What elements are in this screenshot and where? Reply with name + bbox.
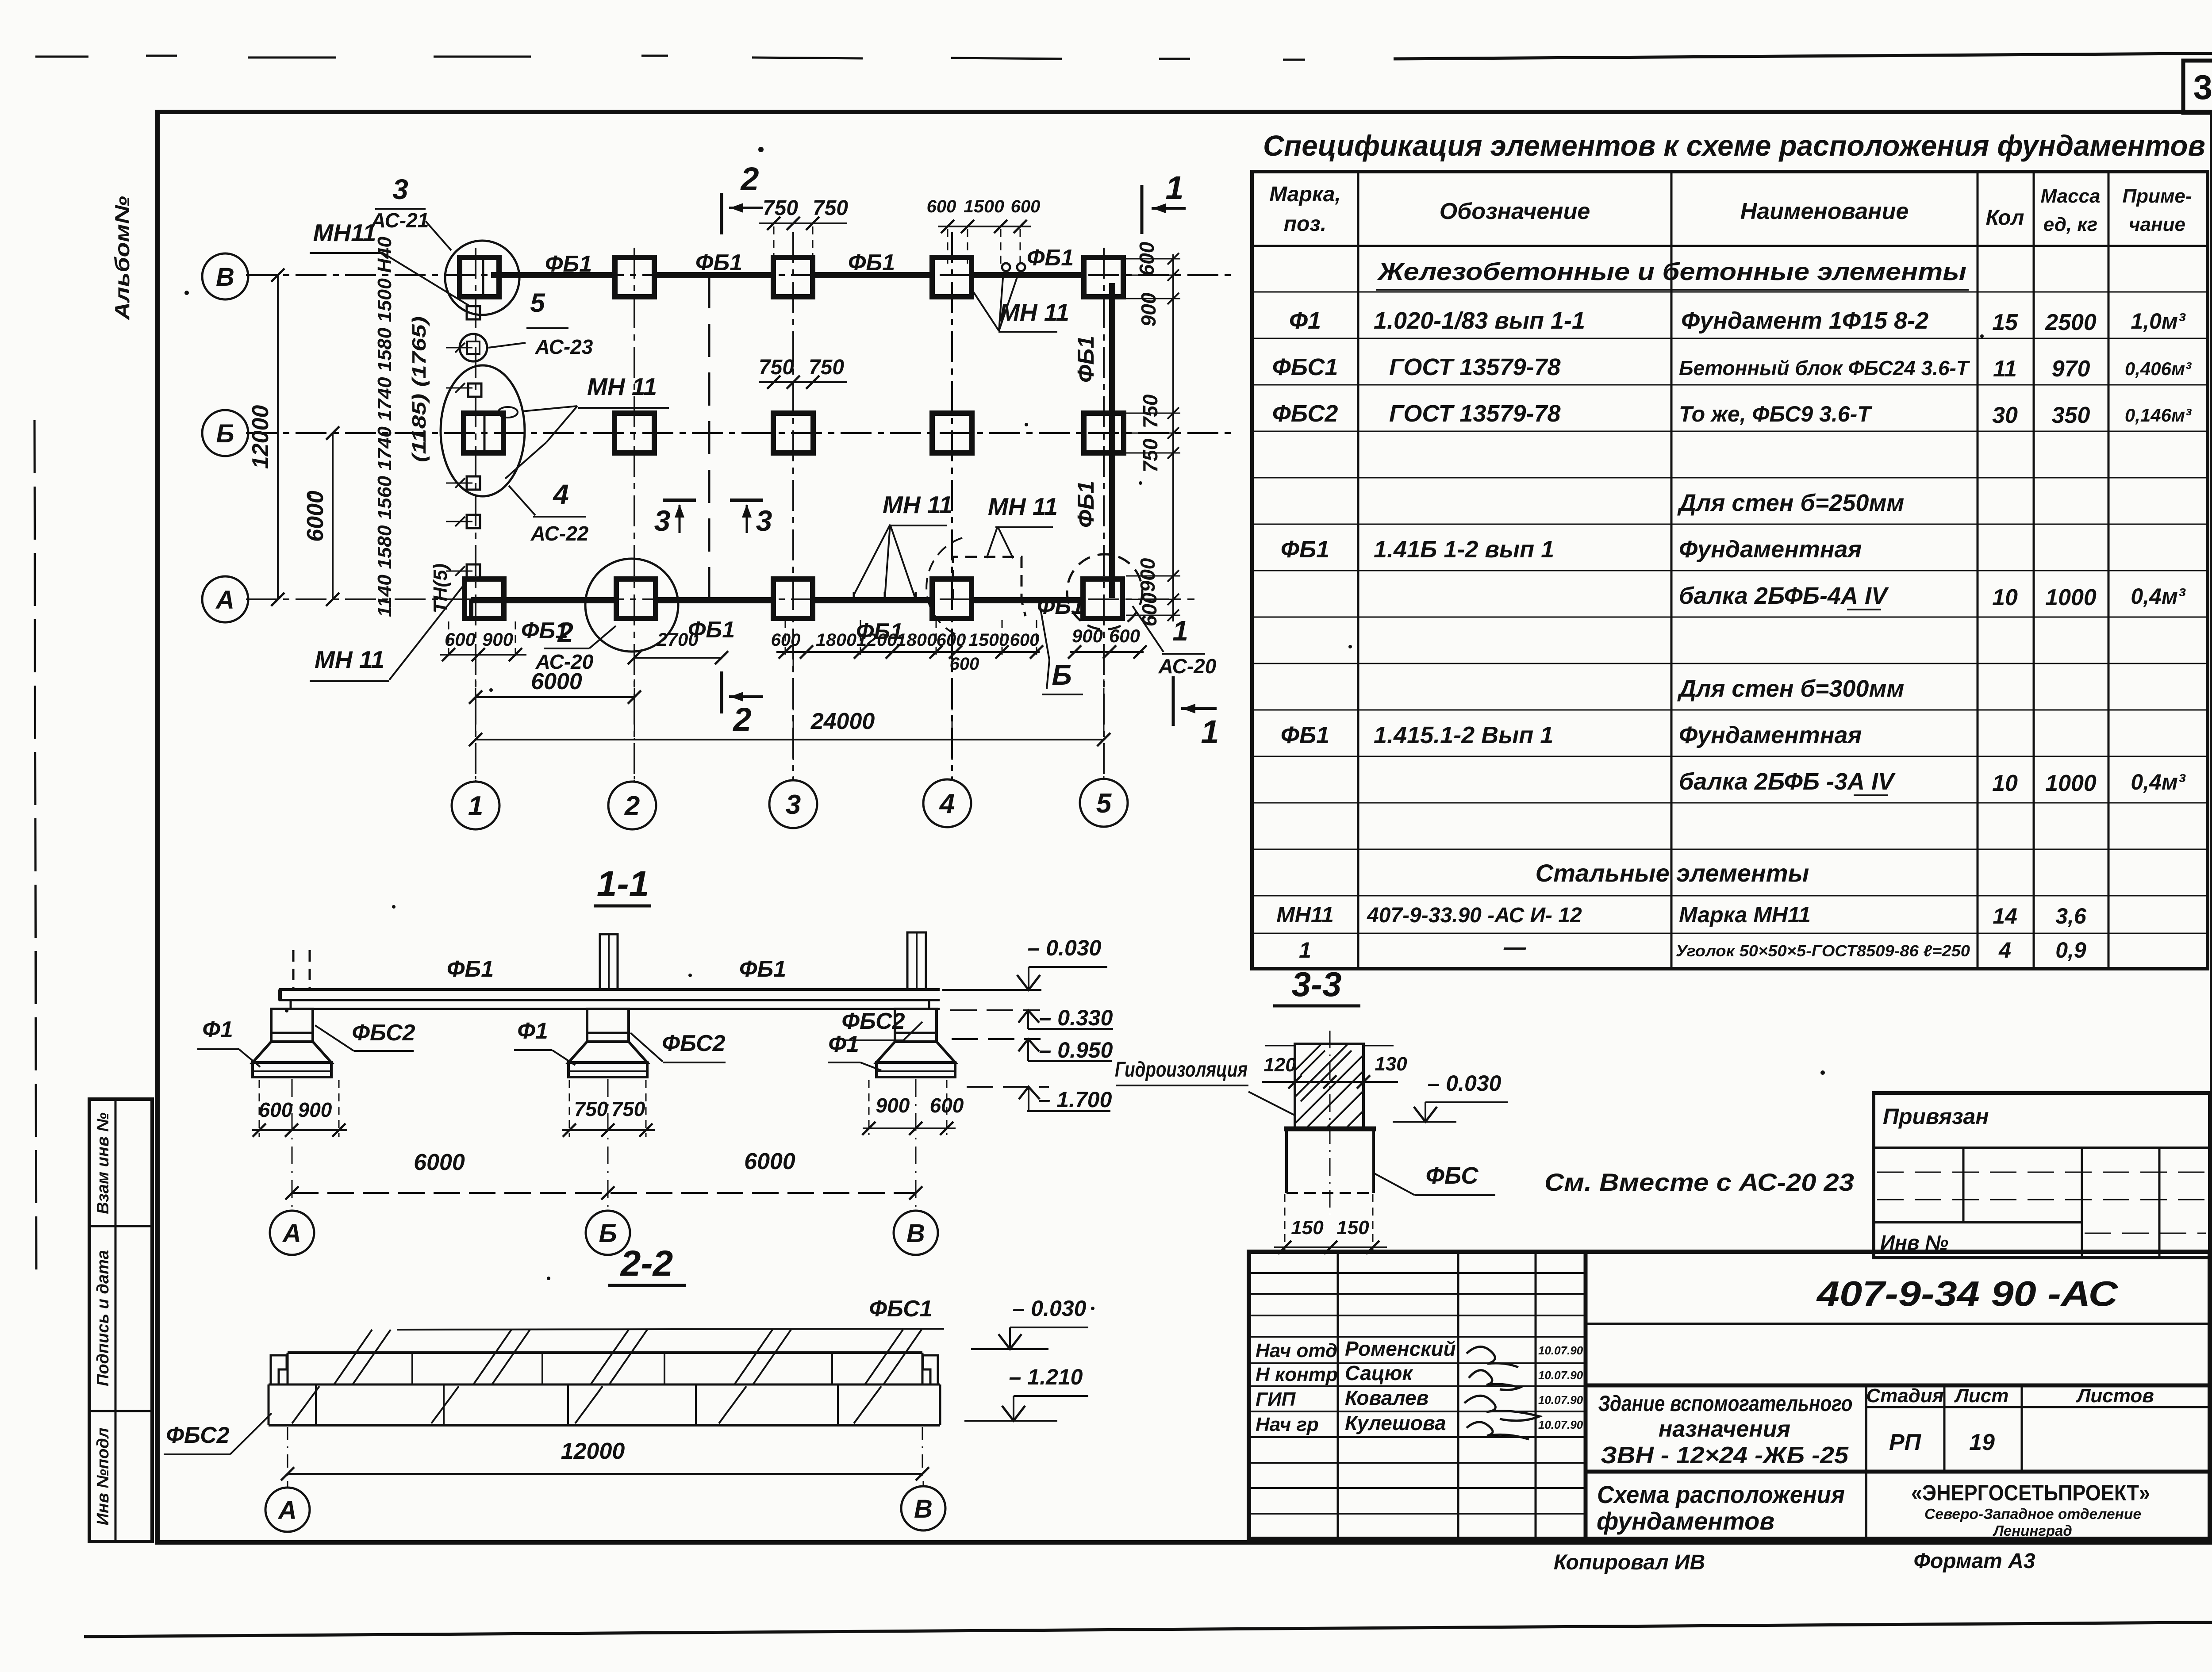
- svg-text:5: 5: [530, 288, 545, 318]
- plan: FB1 labels rotated axis5: [1073, 336, 1099, 528]
- svg-text:2500: 2500: [2045, 310, 2097, 335]
- svg-text:4: 4: [939, 789, 955, 819]
- section 1-1 elevation -0.950: [952, 1038, 1113, 1062]
- svg-text:600: 600: [1135, 242, 1158, 276]
- plan: bottom dim 2700: [628, 629, 728, 664]
- svg-text:Инв №подл: Инв №подл: [94, 1428, 112, 1526]
- svg-text:0,4м³: 0,4м³: [2131, 584, 2185, 609]
- svg-text:14: 14: [1993, 904, 2017, 928]
- svg-text:24000: 24000: [810, 709, 875, 734]
- svg-text:600: 600: [259, 1098, 293, 1121]
- plan: top dim 600 1500 600 axis4: [927, 197, 1041, 265]
- scan artifact left edge: [35, 420, 36, 1269]
- section 1-1 axis circles: [270, 1079, 938, 1255]
- svg-text:Приме-: Приме-: [2122, 185, 2192, 207]
- plan: foundation F1 row A axis 5: [1083, 579, 1122, 618]
- svg-text:6000: 6000: [303, 491, 328, 542]
- svg-text:АС-22: АС-22: [530, 522, 589, 545]
- plan: axis1 tick marks: [446, 343, 472, 576]
- svg-text:ФБС2: ФБС2: [841, 1009, 905, 1034]
- plan: foundation F1 row V axis 4: [932, 257, 972, 297]
- plan: detail circle AC-21: [445, 241, 519, 315]
- svg-text:—: —: [1503, 935, 1526, 959]
- title block vertical lines: [1338, 1252, 1586, 1539]
- svg-text:900: 900: [1137, 292, 1160, 326]
- spec table grid: [1252, 172, 2208, 969]
- svg-text:Северо-Западное отделение: Северо-Западное отделение: [1924, 1506, 2141, 1522]
- svg-text:В: В: [914, 1495, 933, 1523]
- svg-text:ФБ1: ФБ1: [1027, 245, 1074, 271]
- title block dates: [1538, 1344, 1583, 1431]
- section 1-1 label FBS2 axis V: [841, 1009, 922, 1040]
- section 2-2 hatching: [292, 1330, 922, 1423]
- plan: flag B label: [1040, 604, 1083, 694]
- svg-text:10.07.90: 10.07.90: [1538, 1393, 1583, 1407]
- spec table subheader row: [1376, 257, 1969, 290]
- svg-text:Железобетонные и бетонные эле: Железобетонные и бетонные элементы: [1377, 257, 1966, 285]
- section 2-2 lower course: [269, 1384, 940, 1425]
- svg-text:970: 970: [2052, 356, 2090, 382]
- spec table row FBS1: [1272, 354, 2192, 382]
- svg-text:1500: 1500: [968, 630, 1009, 650]
- section 1-1 footing F1 axis A: [253, 1009, 331, 1077]
- plan: column circle 3: [769, 780, 817, 828]
- section 1-1 label F1 axis A: [197, 1017, 260, 1067]
- plan: foundation F1 row B axis 4: [932, 413, 972, 453]
- svg-text:Лист: Лист: [1954, 1385, 2009, 1407]
- svg-text:В: В: [216, 263, 234, 291]
- section 2-2 top line: [397, 1329, 944, 1330]
- plan: foundation F1 row A axis 2: [616, 579, 656, 618]
- spec table row ugolok: [1299, 935, 2086, 963]
- svg-text:4: 4: [552, 479, 569, 510]
- svg-text:Копировал ИВ: Копировал ИВ: [1554, 1551, 1705, 1574]
- plan: vertical axis 2: [634, 248, 635, 782]
- svg-text:Стадия: Стадия: [1866, 1385, 1943, 1407]
- plan: foundation F1 row B axis 1: [464, 413, 503, 453]
- svg-text:ГОСТ 13579-78: ГОСТ 13579-78: [1389, 354, 1561, 380]
- svg-text:6000: 6000: [744, 1149, 795, 1174]
- section 1-1 label F1 axis B: [514, 1018, 575, 1065]
- svg-text:120: 120: [1263, 1054, 1296, 1076]
- section 1-1 label FBS2 axis B: [630, 1031, 726, 1062]
- svg-text:600: 600: [927, 197, 956, 216]
- plan: label 4 AC-22: [509, 479, 589, 545]
- plan: column circle 1: [452, 782, 499, 829]
- svg-text:600: 600: [1109, 625, 1140, 646]
- plan: section mark 2 top: [722, 161, 763, 234]
- svg-text:Нач гр: Нач гр: [1256, 1414, 1319, 1435]
- plan: axis line B (row G): [246, 432, 1234, 434]
- plan: bottom dim 900 600 axis5: [1068, 625, 1147, 659]
- section 1-1 footing F1 axis V: [876, 1009, 955, 1077]
- svg-text:В: В: [906, 1219, 925, 1248]
- title block right zone lines: [1586, 1324, 2210, 1539]
- svg-text:Марка,: Марка,: [1269, 183, 1341, 206]
- svg-text:1,0м³: 1,0м³: [2131, 309, 2185, 334]
- svg-text:900: 900: [482, 629, 513, 650]
- svg-text:ФБ1: ФБ1: [447, 956, 494, 982]
- svg-text:750: 750: [1139, 394, 1162, 428]
- plan: bottom dim 6000: [469, 669, 641, 704]
- svg-text:750: 750: [1139, 438, 1162, 472]
- spec table header texts: [1269, 183, 2192, 236]
- section 1-1 label F1 axis V: [828, 1032, 881, 1070]
- svg-text:ФБ1: ФБ1: [739, 956, 786, 982]
- svg-text:6000: 6000: [414, 1150, 465, 1175]
- svg-text:Обозначение: Обозначение: [1440, 199, 1590, 224]
- section 1-1 dim 600 900 axis A: [252, 1080, 347, 1137]
- svg-text:ФБС2: ФБС2: [352, 1020, 415, 1046]
- svg-text:поз.: поз.: [1284, 212, 1326, 236]
- svg-text:– 0.950: – 0.950: [1039, 1038, 1113, 1062]
- svg-text:Для стен б=300мм: Для стен б=300мм: [1677, 675, 1904, 702]
- title block names: [1345, 1337, 1456, 1434]
- svg-text:600: 600: [1010, 630, 1040, 650]
- plan: label 1 AC-20: [1133, 606, 1217, 678]
- section 1-1 footing F1 axis B: [568, 1009, 647, 1077]
- drawing frame border: [157, 112, 2212, 1542]
- svg-text:ФБ1: ФБ1: [1281, 722, 1329, 748]
- svg-text:10.07.90: 10.07.90: [1538, 1418, 1583, 1431]
- plan: dashed rect MN11 detail axis4: [926, 538, 1025, 637]
- section 1-1 column V stub: [907, 932, 926, 989]
- plan: vertical axis 1: [475, 248, 476, 782]
- svg-text:900: 900: [1072, 625, 1103, 646]
- svg-text:1: 1: [1299, 938, 1311, 963]
- svg-text:МН11: МН11: [1276, 902, 1334, 927]
- plan: beam FB1 row V segments: [491, 272, 1084, 278]
- svg-text:Ф1: Ф1: [517, 1018, 548, 1044]
- svg-text:12000: 12000: [561, 1438, 625, 1464]
- svg-text:ФБ1: ФБ1: [848, 250, 895, 276]
- svg-text:2-2: 2-2: [620, 1243, 673, 1284]
- section 1-1 dim 750 750 axis B: [562, 1080, 655, 1137]
- svg-text:ФБ1: ФБ1: [1073, 336, 1099, 383]
- svg-text:12000: 12000: [248, 405, 273, 469]
- plan: section 3-3 cut line: [708, 275, 710, 600]
- svg-text:Уголок 50×50×5-ГОСТ8509-86 ℓ=2: Уголок 50×50×5-ГОСТ8509-86 ℓ=250: [1676, 942, 1970, 960]
- plan: foundation F1 row V axis 1: [460, 257, 499, 297]
- section 2-2 FBS2 label: [164, 1413, 272, 1454]
- section 1-1 column A dashed: [293, 950, 310, 989]
- svg-text:2: 2: [740, 161, 759, 197]
- svg-text:2: 2: [624, 791, 640, 821]
- svg-text:ФБС2: ФБС2: [166, 1423, 229, 1448]
- svg-text:750: 750: [574, 1097, 608, 1120]
- section 3-3 FBS block: [1284, 1129, 1376, 1193]
- left stamp column: [89, 1099, 152, 1542]
- plan: section mark 3 left: [654, 500, 696, 537]
- plan: foundation F1 row B axis 2: [614, 413, 654, 453]
- svg-text:ЗВН - 12×24 -ЖБ -25: ЗВН - 12×24 -ЖБ -25: [1601, 1442, 1849, 1469]
- svg-text:407-9-33.90 -АС И- 12: 407-9-33.90 -АС И- 12: [1367, 904, 1582, 927]
- svg-text:См. Вместе с АС-20 23: См. Вместе с АС-20 23: [1544, 1168, 1854, 1196]
- scan artifact top dashed line: [35, 53, 2212, 60]
- section 1-1 dim 6000 6000: [285, 1149, 922, 1200]
- svg-text:Нач отд: Нач отд: [1256, 1340, 1337, 1361]
- title block stadiya list listov: [1866, 1385, 2154, 1455]
- section 1-1 dim 900 600 axis V: [862, 1080, 964, 1135]
- svg-text:Роменский: Роменский: [1345, 1337, 1456, 1360]
- svg-text:Марка МН11: Марка МН11: [1679, 902, 1811, 927]
- svg-text:Стальные элементы: Стальные элементы: [1536, 859, 1809, 887]
- plan: left dim 6000: [303, 426, 339, 606]
- svg-text:10.07.90: 10.07.90: [1538, 1344, 1583, 1357]
- svg-text:А: А: [277, 1496, 297, 1525]
- svg-text:МН 11: МН 11: [999, 299, 1069, 326]
- sheet number box 32: [2183, 61, 2212, 113]
- svg-text:Б: Б: [599, 1219, 617, 1248]
- svg-text:– 0.030: – 0.030: [1428, 1071, 1502, 1096]
- section 2-2 upper course: [269, 1353, 940, 1384]
- plan: label MN11 bottom left: [310, 583, 465, 681]
- svg-text:Масса: Масса: [2040, 185, 2100, 207]
- svg-text:750: 750: [763, 196, 798, 220]
- svg-text:Привязан: Привязан: [1883, 1104, 1989, 1129]
- svg-text:ФБ1: ФБ1: [1037, 594, 1084, 619]
- svg-text:1140 1580 1560 1740 1740 1580: 1140 1580 1560 1740 1740 1580 1500 Н40: [374, 236, 396, 617]
- plan: vertical axis 3: [792, 232, 794, 781]
- svg-text:Фундаментная: Фундаментная: [1679, 722, 1862, 748]
- svg-text:Спецификация элементов к схеме: Спецификация элементов к схеме расположе…: [1263, 129, 2205, 162]
- svg-text:Ленинград: Ленинград: [1993, 1522, 2072, 1539]
- plan: bottom dim 600 900 axis1: [440, 621, 526, 661]
- spec table row FB1 first: [1281, 536, 1862, 563]
- plan: foundation F1 row A axis 4: [932, 579, 972, 618]
- svg-text:ед, кг: ед, кг: [2043, 214, 2097, 235]
- svg-text:15: 15: [1992, 310, 2018, 335]
- plan: column circle 2: [608, 782, 656, 829]
- svg-text:1: 1: [1165, 169, 1183, 206]
- svg-text:Взам инв №: Взам инв №: [94, 1112, 112, 1214]
- svg-text:ФБ1: ФБ1: [1281, 536, 1329, 563]
- plan: beam FB1 row A segments: [471, 600, 1083, 617]
- plan: foundation F1 row V axis 3: [773, 257, 813, 297]
- plan: label MN11 mid: [498, 373, 669, 479]
- svg-text:1800: 1800: [816, 630, 856, 650]
- plan: axis line A (row A): [246, 598, 1194, 600]
- svg-text:АС-23: АС-23: [535, 335, 593, 358]
- section 1-1 column B stub: [600, 934, 618, 989]
- plan: detail oval AC-22: [441, 365, 525, 496]
- svg-text:РП: РП: [1889, 1430, 1922, 1455]
- svg-text:900: 900: [298, 1098, 332, 1121]
- svg-text:«ЭНЕРГОСЕТЬПРОЕКТ»: «ЭНЕРГОСЕТЬПРОЕКТ»: [1911, 1480, 2150, 1505]
- plan: bottom dim chain axis3-4: [771, 620, 1043, 674]
- svg-text:балка 2БФБ -3А IV: балка 2БФБ -3А IV: [1679, 768, 1896, 795]
- svg-text:32: 32: [2193, 68, 2212, 107]
- plan: foundation F1 row A axis 1: [465, 579, 504, 618]
- svg-text:– 0.330: – 0.330: [1039, 1005, 1113, 1030]
- plan: section mark 1 top: [1142, 169, 1186, 234]
- svg-text:750: 750: [813, 196, 848, 220]
- svg-text:ГИП: ГИП: [1256, 1388, 1296, 1410]
- svg-text:750: 750: [611, 1097, 645, 1120]
- plan: column circle 4: [923, 779, 971, 827]
- plan: section mark 2 bottom: [722, 671, 763, 738]
- svg-text:Для стен б=250мм: Для стен б=250мм: [1677, 490, 1904, 516]
- plan: label 5 AC-23: [488, 288, 593, 358]
- svg-text:ФБ1: ФБ1: [1073, 481, 1099, 528]
- svg-text:1000: 1000: [2045, 585, 2097, 610]
- plan: top dim 750 750 axis3: [759, 196, 848, 264]
- svg-text:1200: 1200: [856, 630, 897, 650]
- svg-text:3: 3: [756, 504, 772, 537]
- svg-text:Ф1: Ф1: [1289, 307, 1321, 334]
- privyazan table: [1874, 1093, 2210, 1258]
- svg-text:600: 600: [1011, 197, 1041, 216]
- svg-text:балка 2БФБ-4А IV: балка 2БФБ-4А IV: [1679, 583, 1889, 609]
- section 3-3 title: [1273, 965, 1360, 1006]
- svg-text:600: 600: [950, 654, 979, 674]
- svg-text:900: 900: [1136, 558, 1159, 592]
- plan: grid circle B: [202, 410, 248, 456]
- svg-text:ФБС2: ФБС2: [662, 1031, 725, 1056]
- svg-text:ФБС: ФБС: [1426, 1162, 1479, 1189]
- svg-text:900: 900: [876, 1094, 910, 1117]
- svg-text:Подпись и дата: Подпись и дата: [94, 1250, 112, 1386]
- plan: bottom dim 24000: [469, 709, 1110, 746]
- plan: axis extensions to column circles: [476, 659, 1104, 779]
- section 3-3 wall centerline: [1329, 1031, 1331, 1214]
- svg-text:Н контр: Н контр: [1256, 1364, 1338, 1385]
- plan: vertical axis 4: [951, 232, 953, 779]
- svg-text:Б: Б: [216, 419, 234, 448]
- svg-text:600: 600: [1138, 592, 1161, 626]
- section 1-1 beam lines: [279, 989, 940, 1009]
- svg-text:ГОСТ 13579-78: ГОСТ 13579-78: [1389, 400, 1561, 427]
- plan: beam FB1 vertical axis5: [1109, 283, 1115, 598]
- svg-text:ФБС2: ФБС2: [1272, 400, 1338, 427]
- scan artifact bottom edge: [84, 1622, 2212, 1637]
- svg-text:1.020-1/83 вып 1-1: 1.020-1/83 вып 1-1: [1374, 307, 1585, 334]
- svg-text:МН 11: МН 11: [315, 646, 384, 673]
- spec table row FBS2: [1272, 400, 2192, 428]
- svg-text:фундаментов: фундаментов: [1597, 1507, 1774, 1535]
- section 2-2 left mounting hook: [271, 1355, 287, 1384]
- svg-text:3: 3: [654, 504, 671, 537]
- svg-text:1500: 1500: [964, 197, 1004, 216]
- title block org name: [1911, 1480, 2150, 1539]
- svg-text:Фундамент 1Ф15 8-2: Фундамент 1Ф15 8-2: [1681, 307, 1928, 334]
- plan: label 3 AC-21: [371, 173, 451, 250]
- svg-text:11: 11: [1993, 356, 2017, 382]
- svg-text:1.415.1-2 Вып 1: 1.415.1-2 Вып 1: [1374, 722, 1553, 748]
- plan: grid circle A: [202, 576, 248, 622]
- svg-text:150: 150: [1291, 1217, 1324, 1239]
- plan: foundation F1 row A axis 3: [773, 579, 813, 618]
- svg-text:19: 19: [1969, 1430, 1995, 1455]
- section 3-3 dim 150 150: [1274, 1194, 1387, 1254]
- title block left zone rows: [1249, 1273, 1586, 1514]
- svg-text:1000: 1000: [2045, 771, 2097, 796]
- section 3-3 dim 120 130: [1262, 1046, 1407, 1089]
- svg-text:3,6: 3,6: [2055, 904, 2087, 928]
- svg-text:Бетонный блок ФБС24 3.6-Т: Бетонный блок ФБС24 3.6-Т: [1679, 357, 1970, 380]
- svg-text:407-9-34 90 -АС: 407-9-34 90 -АС: [1816, 1274, 2119, 1313]
- plan: label MN11 row V right: [971, 263, 1069, 332]
- section 3-3 wall hatched: [1295, 1044, 1363, 1128]
- svg-text:10: 10: [1992, 771, 2018, 796]
- svg-text:Здание вспомогательного: Здание вспомогательного: [1598, 1391, 1853, 1416]
- svg-text:3-3: 3-3: [1292, 965, 1342, 1004]
- svg-text:30: 30: [1992, 403, 2018, 428]
- section 2-2 right mounting hook: [923, 1355, 938, 1384]
- title block sheet name: [1597, 1480, 1845, 1535]
- plan: vertical axis 5: [1103, 248, 1105, 779]
- svg-text:Фундаментная: Фундаментная: [1679, 536, 1862, 563]
- plan: axis line V (row B): [246, 274, 1234, 276]
- plan: FB1 labels row A: [521, 594, 1084, 644]
- plan: MN11 small squares along axis1: [467, 306, 481, 578]
- svg-text:0,9: 0,9: [2055, 938, 2086, 963]
- section 1-1 elevation -0.330: [950, 1005, 1113, 1030]
- svg-text:Листов: Листов: [2076, 1385, 2154, 1407]
- plan: dashed detail circle 1 AC-20 axis5: [1067, 554, 1142, 629]
- svg-text:Формат А3: Формат А3: [1913, 1549, 2035, 1573]
- svg-text:4: 4: [1998, 938, 2011, 963]
- svg-text:МН 11: МН 11: [883, 491, 952, 518]
- svg-text:6000: 6000: [531, 669, 582, 694]
- svg-text:0,4м³: 0,4м³: [2131, 770, 2185, 794]
- svg-text:750: 750: [809, 356, 844, 379]
- svg-text:ФБ1: ФБ1: [695, 250, 742, 276]
- svg-text:Гидроизоляция: Гидроизоляция: [1115, 1058, 1248, 1081]
- title block roles: [1256, 1340, 1338, 1435]
- svg-text:– 1.210: – 1.210: [1009, 1365, 1083, 1389]
- plan: detail circle 2 AC-20: [585, 559, 678, 652]
- svg-text:чание: чание: [2129, 214, 2185, 235]
- section 2-2 axis circle V: [901, 1481, 945, 1530]
- plan: inner line in row B axis1 square: [484, 415, 486, 451]
- plan: label MN11 upper left: [310, 219, 470, 306]
- svg-text:10: 10: [1992, 585, 2018, 610]
- svg-text:10.07.90: 10.07.90: [1538, 1369, 1583, 1382]
- svg-text:2: 2: [557, 617, 573, 648]
- section 1-1 title: [594, 864, 651, 906]
- svg-text:1: 1: [468, 791, 483, 821]
- svg-text:А: А: [282, 1219, 301, 1248]
- svg-text:130: 130: [1375, 1053, 1407, 1075]
- svg-text:Ковалев: Ковалев: [1345, 1386, 1429, 1409]
- svg-text:Ф1: Ф1: [202, 1017, 233, 1043]
- svg-text:3: 3: [392, 173, 408, 205]
- plan: right dim chain: [1126, 242, 1180, 626]
- svg-text:Сацюк: Сацюк: [1345, 1361, 1413, 1384]
- plan: label MN11 row A center: [854, 491, 952, 600]
- svg-text:3: 3: [786, 790, 801, 820]
- plan: foundation F1 row B axis 5: [1084, 413, 1124, 453]
- svg-text:ФБС1: ФБС1: [869, 1296, 932, 1322]
- plan: FB1 labels row V: [545, 245, 1074, 277]
- noise specks: [184, 147, 1984, 1310]
- svg-text:АС-20: АС-20: [1158, 655, 1217, 678]
- svg-text:Кол: Кол: [1986, 206, 2024, 230]
- spec table row balka 4A: [1679, 583, 2186, 610]
- svg-text:150: 150: [1336, 1217, 1369, 1239]
- svg-text:(1185) (1765): (1185) (1765): [408, 316, 430, 462]
- svg-text:Ф1: Ф1: [828, 1032, 859, 1057]
- plan: mid dim 750 750 axis3 row B: [759, 356, 847, 389]
- svg-text:Схема расположения: Схема расположения: [1597, 1480, 1845, 1508]
- svg-text:1: 1: [1201, 713, 1219, 750]
- svg-text:1.41Б 1-2 вып 1: 1.41Б 1-2 вып 1: [1374, 536, 1554, 563]
- svg-text:350: 350: [2052, 403, 2090, 428]
- svg-text:ФБС1: ФБС1: [1272, 354, 1338, 380]
- section 1-1 elevation -1.700: [967, 1087, 1112, 1112]
- plan: small circle AC-23: [460, 334, 487, 361]
